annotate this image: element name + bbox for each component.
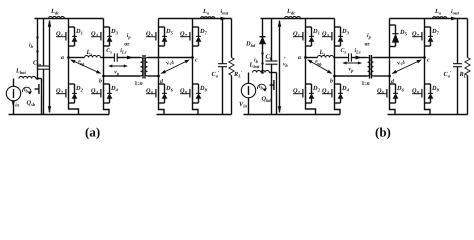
transistor Q8(b) gate bar: [421, 89, 423, 98]
wire Q8 source bracket fig(b): [425, 105, 431, 115]
current arrow i_out fig(b): [451, 17, 456, 20]
transistor Q8(a) gate lead: [180, 93, 190, 95]
wire node b to transformer fig(b): [335, 75, 368, 77]
node marker dots on riser fig(b): [261, 52, 263, 54]
diode of Q8(a) (cathode bar): [196, 92, 201, 94]
diode of Q4(b) (cathode bar): [338, 92, 343, 94]
voltage marker v_p fig(b): [343, 62, 361, 64]
transistor Q2(a) gate lead: [56, 93, 66, 95]
svg-text:iLs: iLs: [355, 47, 361, 54]
svg-text:Q5: Q5: [146, 31, 154, 38]
transistor Q4(b) channel: [334, 87, 336, 100]
svg-text:Q3: Q3: [322, 31, 330, 38]
svg-text:Ls: Ls: [319, 49, 326, 56]
transistor Q2(a) gate bar: [65, 89, 67, 98]
transistor Q_bd fig(b): [276, 73, 278, 79]
transistor Q1(b) channel: [305, 30, 307, 43]
wire node a to L_s fig(a): [69, 57, 85, 59]
transformer secondary winding fig(a): [145, 58, 147, 77]
diode of Q1(b) (triangle): [309, 37, 314, 42]
transistor Q2(b) gate bar: [302, 89, 304, 98]
svg-text:ib: ib: [29, 43, 34, 49]
svg-text:c: c: [195, 58, 198, 64]
svg-text:n: n: [140, 81, 143, 87]
svg-text:Ldc: Ldc: [286, 8, 295, 15]
svg-text:a: a: [61, 55, 64, 61]
node d fig(b): [388, 75, 391, 78]
diode of Q3(b) (triangle): [338, 37, 343, 42]
diode of Q4(b) (triangle): [338, 94, 343, 99]
transistor Q4(a) channel: [103, 87, 105, 100]
transistor Q3(a) gate bar: [100, 32, 102, 41]
transistor Q6(a) gate lead: [146, 93, 156, 95]
wire L_s to C_s fig(a): [101, 57, 115, 59]
diode of Q4(a) (triangle): [107, 94, 112, 99]
transistor Q3(a) source lead: [103, 42, 105, 48]
transistor Q5(a) gate lead: [146, 36, 156, 38]
transistor Q7(b) gate lead: [412, 36, 422, 38]
diode of Q1(b) (cathode bar): [309, 35, 314, 37]
inductor L_bat fig(a): [19, 76, 36, 78]
svg-text:ib: ib: [259, 84, 264, 90]
transistor Q7(a) body-diode branch: [193, 26, 199, 28]
wire leg1 mid fig(b): [305, 48, 307, 83]
capacitor C_s fig(b): [348, 53, 350, 61]
transistor Q5(a) body-diode branch: [159, 26, 165, 28]
wire Q2 source bracket fig(a): [69, 105, 79, 115]
capacitor C_s fig(a): [113, 53, 115, 61]
svg-text:D6: D6: [165, 85, 174, 92]
svg-text:+: +: [284, 55, 287, 60]
transistor Q3(b) source lead: [334, 42, 336, 48]
voltage arrow line across DC link fig(b): [279, 21, 281, 113]
junction dot riser/L_bat fig(b): [261, 71, 264, 74]
svg-text:Q8: Q8: [412, 88, 420, 95]
svg-text:Q2: Q2: [56, 88, 64, 95]
rectifier diode D_5 fig(b) (replaces Q5): [389, 19, 391, 48]
svg-text:Qbd: Qbd: [262, 96, 272, 103]
svg-text:Co′: Co′: [444, 70, 453, 78]
voltage arrow line across DC link fig(a): [49, 21, 51, 113]
node a fig(a): [67, 56, 70, 59]
transistor Q6(a) gate bar: [155, 89, 157, 98]
svg-text:Vin: Vin: [239, 101, 247, 108]
resistor R_L branch fig(a): [231, 19, 233, 58]
wire Q8 source bracket fig(a): [193, 105, 199, 115]
transistor Q7(b) drain lead: [424, 19, 426, 31]
inductor L_o fig(a): [201, 17, 215, 19]
svg-text:ip: ip: [127, 32, 132, 39]
diode of Q6(b) (triangle): [393, 94, 398, 99]
svg-text:d: d: [391, 78, 394, 85]
svg-text:D2: D2: [312, 85, 321, 92]
transistor Q3(b) gate bar: [331, 32, 333, 41]
diode of Q8(b) (triangle): [428, 94, 433, 99]
diode of Q6(a) (triangle): [162, 94, 167, 99]
transistor Q8(b) gate lead: [412, 93, 422, 95]
svg-text:D8: D8: [431, 85, 440, 92]
wire secondary bottom to node d fig(a): [148, 75, 159, 77]
svg-text:n: n: [367, 81, 370, 87]
wire DC-link capacitor branch lower fig(b): [271, 64, 273, 114]
diode D_bd fig(b): [259, 37, 265, 44]
transistor Q3(b) body-diode branch: [335, 26, 341, 28]
wire leg3 mid fig(b): [389, 48, 391, 83]
svg-text:Q8: Q8: [180, 88, 188, 95]
wire bottom rail of primary bridge fig(b): [244, 114, 341, 116]
transistor Q1(a) gate lead: [56, 36, 66, 38]
inductor L_bat fig(b): [253, 70, 270, 72]
diode of Q7(a) (triangle): [196, 37, 201, 42]
junction dot riser/L_bat fig(a): [36, 77, 39, 80]
transistor Q1(a) source lead: [68, 42, 70, 48]
wire C_s to transformer with current arrow fig(b): [352, 57, 368, 59]
transistor Q6(b) channel: [389, 87, 391, 100]
svg-text:vp: vp: [349, 67, 355, 73]
node marker dots on riser fig(a): [36, 36, 38, 38]
inductor L_o fig(b): [433, 17, 447, 19]
transistor Q2(a) source lead: [68, 99, 70, 105]
diode of Q3(b) (cathode bar): [338, 35, 343, 37]
svg-text:D3: D3: [110, 28, 119, 35]
wire top rail of primary bridge fig(a): [35, 18, 104, 20]
wire output bottom rail fig(a): [157, 114, 232, 116]
svg-text:RL′: RL′: [233, 70, 243, 78]
svg-text:Ls: Ls: [86, 49, 93, 56]
diode of Q8(a) (triangle): [196, 94, 201, 99]
transistor Q4(b) drain lead: [334, 83, 336, 88]
svg-text:Cs: Cs: [106, 48, 112, 54]
wire leg4 mid fig(b): [424, 48, 426, 83]
wire source top lead fig(b): [248, 73, 250, 84]
diode of Q6(a) (cathode bar): [162, 92, 167, 94]
transistor Q7(a) source lead: [192, 42, 194, 48]
svg-text:c: c: [427, 58, 430, 64]
transistor Q8(b) source lead: [424, 99, 426, 105]
transistor Q5(a) drain lead: [158, 19, 160, 31]
transistor Q3(b) drain lead: [334, 19, 336, 31]
wire Q2 source bracket fig(b): [306, 105, 316, 115]
svg-text:Vin: Vin: [11, 100, 19, 107]
svg-text:D4: D4: [341, 85, 350, 92]
wire Q6 source bracket fig(a): [159, 105, 165, 115]
transistor Q7(b) source lead: [424, 42, 426, 48]
transistor Q5(a) source lead: [158, 42, 160, 48]
svg-text:D7: D7: [199, 28, 208, 35]
transistor Q7(b) gate bar: [421, 32, 423, 41]
diode of Q1(a) (cathode bar): [72, 35, 77, 37]
transistor Q4(a) body-diode branch: [104, 83, 110, 85]
transistor Q8(b) channel: [424, 87, 426, 100]
wire C_s to transformer with current arrow fig(a): [117, 57, 140, 59]
wire L_bat to switch fig(a): [36, 78, 42, 80]
svg-text:Q4: Q4: [322, 88, 330, 95]
inductor L_dc fig(b): [285, 17, 301, 19]
transistor Q4(b) gate bar: [331, 89, 333, 98]
transistor Q4(b) body-diode branch: [335, 83, 341, 85]
wire input riser fig(b): [262, 19, 264, 73]
diode of Q3(a) (cathode bar): [107, 35, 112, 37]
diode of Q2(b) (cathode bar): [309, 92, 314, 94]
voltage marker v_p fig(a): [109, 65, 127, 67]
svg-text:b: b: [99, 78, 102, 85]
transistor Q3(a) gate lead: [91, 36, 101, 38]
wire L_s to C_s fig(b): [334, 57, 349, 59]
transistor Q1(b) gate bar: [302, 32, 304, 41]
wire top rail secondary fig(b): [390, 18, 425, 20]
transistor Q8(a) body-diode branch: [193, 83, 199, 85]
transformer core fig(a): [142, 55, 144, 79]
svg-text:D1: D1: [312, 28, 320, 35]
transistor Q3(b) gate lead: [322, 36, 332, 38]
svg-text:Q1: Q1: [293, 31, 300, 38]
diode of Q2(a) (cathode bar): [72, 92, 77, 94]
transistor Q8(b) body-diode branch: [425, 83, 431, 85]
svg-text:Lo: Lo: [434, 8, 442, 15]
source V_in fig(a): [6, 86, 20, 100]
transistor Q2(b) source lead: [305, 99, 307, 105]
transistor Q4(a) drain lead: [103, 83, 105, 88]
transistor Q6(a) channel: [158, 87, 160, 100]
transistor Q7(a) gate bar: [189, 32, 191, 41]
transformer secondary winding fig(b): [371, 58, 373, 77]
wire source bottom lead fig(a): [13, 101, 15, 115]
svg-text:(a): (a): [85, 124, 100, 139]
transformer primary winding fig(a): [141, 58, 143, 77]
transistor Q5(a) channel: [158, 30, 160, 43]
node d fig(a): [157, 75, 160, 78]
svg-text:(b): (b): [375, 124, 391, 139]
transistor Q3(a) body-diode branch: [104, 26, 110, 28]
wire top rail of primary bridge fig(b): [261, 18, 335, 20]
wire source top lead fig(a): [13, 79, 15, 87]
resistor R_L branch fig(b): [467, 19, 469, 58]
node c fig(b): [423, 56, 426, 59]
diode of Q8(b) (cathode bar): [428, 92, 433, 94]
node a fig(b): [304, 56, 307, 59]
svg-text:Q6: Q6: [146, 88, 154, 95]
svg-text:D3: D3: [341, 28, 350, 35]
node b fig(a): [102, 75, 105, 78]
transistor Q8(b) drain lead: [424, 83, 426, 88]
svg-text:Co′: Co′: [212, 70, 221, 78]
capacitor C_o branch fig(a): [222, 19, 224, 64]
wire Q6 source bracket fig(b): [390, 105, 396, 115]
svg-text:Lbat: Lbat: [15, 68, 26, 75]
transistor Q8(a) gate bar: [189, 89, 191, 98]
diode of Q4(a) (cathode bar): [107, 92, 112, 94]
svg-text:or: or: [124, 42, 130, 48]
wire leg3 mid fig(a): [158, 48, 160, 83]
transistor Q1(b) drain lead: [305, 19, 307, 31]
wire secondary top to node c fig(a): [148, 57, 193, 59]
current arrow i_out fig(a): [221, 17, 226, 20]
transformer core fig(b): [369, 55, 371, 79]
transistor Q6(a) drain lead: [158, 83, 160, 88]
transistor Q8(a) drain lead: [192, 83, 194, 88]
transistor Q6(b) gate bar: [386, 89, 388, 98]
svg-text:Q7: Q7: [180, 31, 188, 38]
curved current arrow near source fig(b): [257, 84, 265, 91]
svg-text:Q1: Q1: [56, 31, 63, 38]
svg-text:Qsb: Qsb: [27, 100, 36, 107]
transformer primary winding fig(b): [368, 58, 370, 77]
wire DC-link capacitor branch upper fig(a): [43, 19, 45, 67]
transistor Q1(a) channel: [68, 30, 70, 43]
svg-text:d: d: [160, 78, 163, 85]
transistor Q1(a) drain lead: [68, 19, 70, 31]
voltage arrow v_ab fig(a): [71, 60, 101, 73]
wire output top rail fig(a): [193, 18, 232, 20]
svg-text:D4: D4: [110, 85, 119, 92]
svg-text:vcd: vcd: [397, 58, 407, 67]
svg-text:vcd: vcd: [166, 58, 176, 67]
voltage arrow v_ab fig(b): [308, 60, 332, 73]
diode of Q2(a) (triangle): [72, 94, 77, 99]
transistor Q1(a) body-diode branch: [69, 26, 75, 28]
diode of Q2(b) (triangle): [309, 94, 314, 99]
svg-text:b: b: [330, 78, 333, 85]
transistor Q6(b) body-diode branch: [390, 83, 396, 85]
wire Q4 source bracket fig(a): [104, 105, 110, 115]
wire L_bat to switch fig(b): [269, 72, 276, 74]
diode of Q3(a) (triangle): [107, 37, 112, 42]
wire secondary top to node c fig(b): [374, 57, 425, 59]
transistor Q2(b) body-diode branch: [306, 83, 312, 85]
wire leg1 mid fig(a): [68, 48, 70, 83]
wire bottom rail of primary bridge fig(a): [9, 114, 110, 116]
transistor Q3(a) drain lead: [103, 19, 105, 31]
svg-text:or: or: [365, 42, 371, 48]
diode of Q7(b) (cathode bar): [428, 35, 433, 37]
svg-text:D5: D5: [165, 28, 174, 35]
wire node a to L_s fig(b): [306, 57, 318, 59]
source V_in fig(b): [241, 83, 255, 97]
transistor Q2(a) channel: [68, 87, 70, 100]
svg-text:Q6: Q6: [377, 88, 385, 95]
transistor Q1(b) source lead: [305, 42, 307, 48]
svg-text:a: a: [298, 55, 301, 61]
wire leg2 mid fig(b): [334, 48, 336, 83]
transistor Q5(a) gate bar: [155, 32, 157, 41]
capacitor C_in fig(a): [38, 65, 50, 67]
svg-text:iLs: iLs: [120, 47, 126, 54]
transistor Q4(b) gate lead: [322, 93, 332, 95]
inductor L_s fig(b): [318, 56, 334, 58]
svg-text:Q7: Q7: [412, 31, 420, 38]
wire source bottom lead fig(b): [248, 98, 250, 115]
transistor Q2(b) channel: [305, 87, 307, 100]
transistor Q8(a) source lead: [192, 99, 194, 105]
diode of Q1(a) (triangle): [72, 37, 77, 42]
transistor Q6(b) gate lead: [377, 93, 387, 95]
curved current arrow near source fig(a): [22, 87, 30, 94]
wire leg2 mid fig(a): [103, 48, 105, 83]
transistor Q8(a) channel: [192, 87, 194, 100]
transistor Q4(a) gate lead: [91, 93, 101, 95]
svg-text:Q4: Q4: [91, 88, 99, 95]
svg-text:vp: vp: [114, 70, 120, 76]
svg-text:iout: iout: [451, 8, 459, 15]
capacitor C_b fig(b): [266, 60, 278, 62]
wire input riser fig(a): [37, 19, 39, 79]
diode of Q5(a) (triangle): [162, 37, 167, 42]
transistor Q7(a) gate lead: [180, 36, 190, 38]
wire DC-link capacitor branch upper fig(b): [271, 19, 273, 62]
transistor Q4(b) source lead: [334, 99, 336, 105]
transistor Q3(b) channel: [334, 30, 336, 43]
diode of Q6(b) (cathode bar): [393, 92, 398, 94]
capacitor C_o branch fig(b): [457, 19, 459, 64]
transistor Q2(a) drain lead: [68, 83, 70, 88]
transistor Q2(b) gate lead: [293, 93, 303, 95]
wire DC-link capacitor branch lower fig(a): [43, 69, 45, 114]
svg-text:Lo: Lo: [202, 8, 210, 15]
transistor Q1(b) gate lead: [293, 36, 303, 38]
wire leg4 mid fig(a): [192, 48, 194, 83]
diode of Q7(b) (triangle): [428, 37, 433, 42]
transistor Q3(a) channel: [103, 30, 105, 43]
diode of Q5(a) (cathode bar): [162, 35, 167, 37]
svg-text:D5: D5: [399, 29, 408, 36]
svg-text:Ldc: Ldc: [50, 8, 59, 15]
transistor Q6(b) drain lead: [389, 83, 391, 88]
svg-text:vab: vab: [314, 59, 324, 68]
node b fig(b): [333, 75, 336, 78]
svg-text:D8: D8: [199, 85, 208, 92]
svg-text:D1: D1: [75, 28, 83, 35]
transistor Q1(b) body-diode branch: [306, 26, 312, 28]
transistor Q7(b) channel: [424, 30, 426, 43]
wire Q4 source bracket fig(b): [335, 105, 341, 115]
transistor Q6(a) body-diode branch: [159, 83, 165, 85]
svg-text:ib: ib: [24, 87, 29, 93]
transistor Q6(b) source lead: [389, 99, 391, 105]
wire output bottom rail fig(b): [388, 114, 468, 116]
wire node b to transformer fig(a): [104, 75, 141, 77]
transistor Q1(a) gate bar: [65, 32, 67, 41]
svg-text:Dbd: Dbd: [245, 41, 256, 48]
svg-text:D7: D7: [431, 28, 440, 35]
svg-text:iout: iout: [221, 8, 229, 15]
svg-text:ip: ip: [367, 32, 372, 39]
svg-text:vb: vb: [283, 62, 288, 68]
svg-text:Q3: Q3: [91, 31, 99, 38]
transistor Q7(b) body-diode branch: [425, 26, 431, 28]
inductor L_s fig(a): [85, 56, 101, 58]
node c fig(a): [191, 56, 194, 59]
transistor Q4(a) source lead: [103, 99, 105, 105]
svg-text:D2: D2: [75, 85, 84, 92]
transistor Q6(a) source lead: [158, 99, 160, 105]
wire secondary bottom to node d fig(b): [374, 75, 390, 77]
transistor Q2(a) body-diode branch: [69, 83, 75, 85]
diode of Q7(a) (cathode bar): [196, 35, 201, 37]
transistor Q2(b) drain lead: [305, 83, 307, 88]
voltage arrow v_cd fig(b): [393, 60, 422, 73]
svg-text:Q2: Q2: [293, 88, 301, 95]
wire output top rail fig(b): [425, 18, 468, 20]
inductor L_dc fig(a): [49, 17, 65, 19]
transistor Q7(a) drain lead: [192, 19, 194, 31]
svg-text:Cs: Cs: [341, 48, 347, 54]
transistor Q_sb fig(a): [41, 79, 43, 83]
svg-text:D6: D6: [396, 85, 405, 92]
wire top rail secondary fig(a): [159, 18, 193, 20]
voltage arrow v_cd fig(a): [162, 60, 190, 73]
transistor Q7(a) channel: [192, 30, 194, 43]
transistor Q4(a) gate bar: [100, 89, 102, 98]
